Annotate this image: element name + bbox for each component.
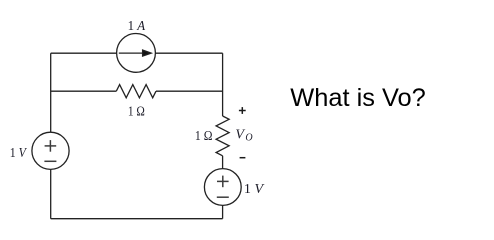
resistor R1 1ohm horizontal (116, 85, 156, 98)
voltage source V1 minus (44, 160, 56, 162)
voltage source V1 plus (45, 140, 57, 152)
wire right upper (222, 53, 224, 116)
svg-text:1 V: 1 V (10, 146, 27, 161)
wire left (50, 53, 52, 219)
wire middle right (156, 90, 223, 92)
current source I1 circle (117, 34, 156, 73)
svg-text:1 Ω: 1 Ω (128, 104, 145, 119)
svg-text:What is Vo?: What is Vo? (290, 84, 425, 112)
resistor R2 1ohm vertical (216, 116, 229, 156)
svg-text:1 V: 1 V (244, 182, 265, 197)
svg-text:1 A: 1 A (128, 19, 146, 34)
wire middle left (51, 90, 117, 92)
wire right lower (222, 156, 224, 219)
svg-text:O: O (245, 132, 252, 143)
voltage source V1 circle (32, 132, 69, 169)
current source I1 arrow (119, 50, 151, 56)
node minus sign of Vo (240, 157, 246, 159)
voltage source V2 plus (217, 176, 229, 188)
svg-text:V: V (235, 128, 245, 143)
wire top (51, 52, 223, 54)
wire bottom (51, 218, 223, 220)
svg-text:1 Ω: 1 Ω (195, 129, 213, 144)
voltage source V2 minus (217, 196, 229, 198)
node plus sign of Vo (239, 107, 246, 114)
voltage source V2 circle (204, 169, 241, 206)
